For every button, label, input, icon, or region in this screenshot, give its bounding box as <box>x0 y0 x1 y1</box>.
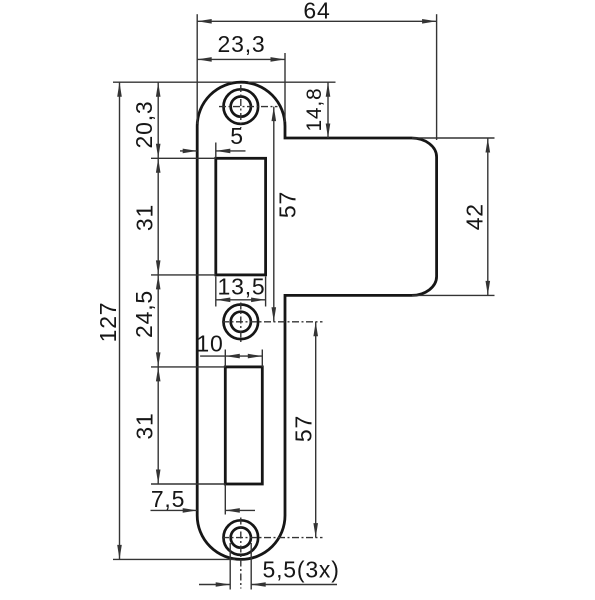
svg-text:57: 57 <box>275 191 301 218</box>
svg-text:57: 57 <box>291 415 317 442</box>
svg-text:5,5(3x): 5,5(3x) <box>263 557 340 583</box>
svg-text:7,5: 7,5 <box>151 486 185 512</box>
svg-text:20,3: 20,3 <box>131 101 157 149</box>
svg-text:31: 31 <box>132 204 158 231</box>
svg-text:5: 5 <box>230 123 244 149</box>
svg-text:23,3: 23,3 <box>218 31 266 57</box>
svg-text:13,5: 13,5 <box>218 274 266 300</box>
svg-text:10: 10 <box>196 331 223 357</box>
svg-text:64: 64 <box>303 0 330 23</box>
svg-text:42: 42 <box>462 203 488 230</box>
svg-text:24,5: 24,5 <box>131 290 157 338</box>
svg-text:31: 31 <box>132 412 158 439</box>
svg-text:127: 127 <box>95 302 121 343</box>
svg-text:14,8: 14,8 <box>303 87 326 131</box>
